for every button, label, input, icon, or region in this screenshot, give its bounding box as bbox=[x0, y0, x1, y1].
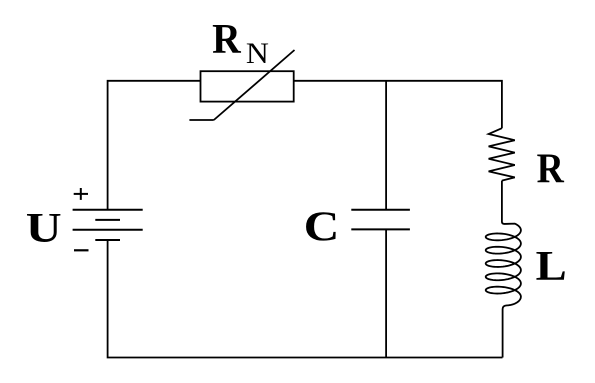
thermistor RN body bbox=[201, 71, 294, 101]
svg-text:N: N bbox=[246, 38, 269, 70]
thermistor RN diagonal bbox=[214, 50, 295, 120]
resistor R zigzag bbox=[489, 128, 515, 180]
battery U: lower long plate bbox=[73, 229, 143, 231]
svg-text:C: C bbox=[304, 205, 340, 251]
svg-text:L: L bbox=[536, 244, 567, 290]
wire capacitor bottom branch bbox=[385, 229, 387, 357]
plus sign bbox=[74, 188, 88, 200]
capacitor C top plate bbox=[351, 209, 410, 211]
battery U: bottom short plate bbox=[95, 239, 120, 241]
wire capacitor top branch bbox=[385, 81, 387, 210]
minus sign bbox=[74, 249, 89, 251]
svg-text:R: R bbox=[537, 146, 565, 192]
battery U: upper short plate bbox=[95, 219, 120, 221]
wire top-left horizontal (node between U+ and RN) bbox=[108, 81, 201, 210]
inductor L coil bbox=[486, 181, 521, 358]
wire bottom horizontal bbox=[108, 240, 503, 358]
capacitor C bottom plate bbox=[351, 228, 410, 230]
svg-text:R: R bbox=[212, 17, 241, 63]
svg-text:U: U bbox=[26, 206, 62, 252]
thermistor RN foot bbox=[189, 119, 213, 121]
wire top-right horizontal (RN right to R branch) bbox=[294, 81, 502, 128]
battery U: top long plate bbox=[73, 209, 143, 211]
